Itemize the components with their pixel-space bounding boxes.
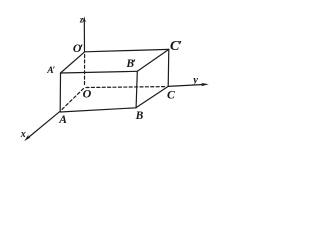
svg-text:C: C xyxy=(167,87,175,101)
svg-text:C′: C′ xyxy=(170,39,182,54)
svg-text:B′: B′ xyxy=(125,58,136,70)
x-axis arrowhead xyxy=(24,135,30,141)
edge C'C (right vertical) xyxy=(167,49,170,86)
svg-text:O′: O′ xyxy=(73,41,83,55)
y-axis arrowhead xyxy=(201,83,209,86)
edge AB (bottom front) xyxy=(60,108,136,112)
svg-text:O: O xyxy=(83,87,92,101)
svg-text:B: B xyxy=(135,110,144,122)
edge B'B (front right vertical) xyxy=(136,71,137,107)
edge BC (bottom right) xyxy=(136,86,168,107)
edge A'A (front left vertical) xyxy=(59,73,61,111)
svg-text:x: x xyxy=(20,129,26,140)
svg-text:A: A xyxy=(58,114,67,126)
svg-text:A′: A′ xyxy=(46,66,55,76)
edge OA dashed (hidden bottom left) xyxy=(61,89,83,111)
edge OC dashed (hidden bottom back) xyxy=(86,86,167,89)
svg-text:y: y xyxy=(191,75,198,86)
edge A'B' (top front) xyxy=(61,71,138,73)
z-axis arrowhead xyxy=(83,16,86,22)
edge B'C' (top right) xyxy=(137,49,169,71)
x-axis xyxy=(28,111,60,137)
edge O'C' (top back) xyxy=(85,49,169,51)
z-axis xyxy=(83,20,85,52)
edge O'A' (top left) xyxy=(61,52,85,73)
y-axis xyxy=(168,85,203,87)
edge O'O dashed (hidden vertical) xyxy=(84,55,86,87)
svg-text:z: z xyxy=(79,14,84,24)
